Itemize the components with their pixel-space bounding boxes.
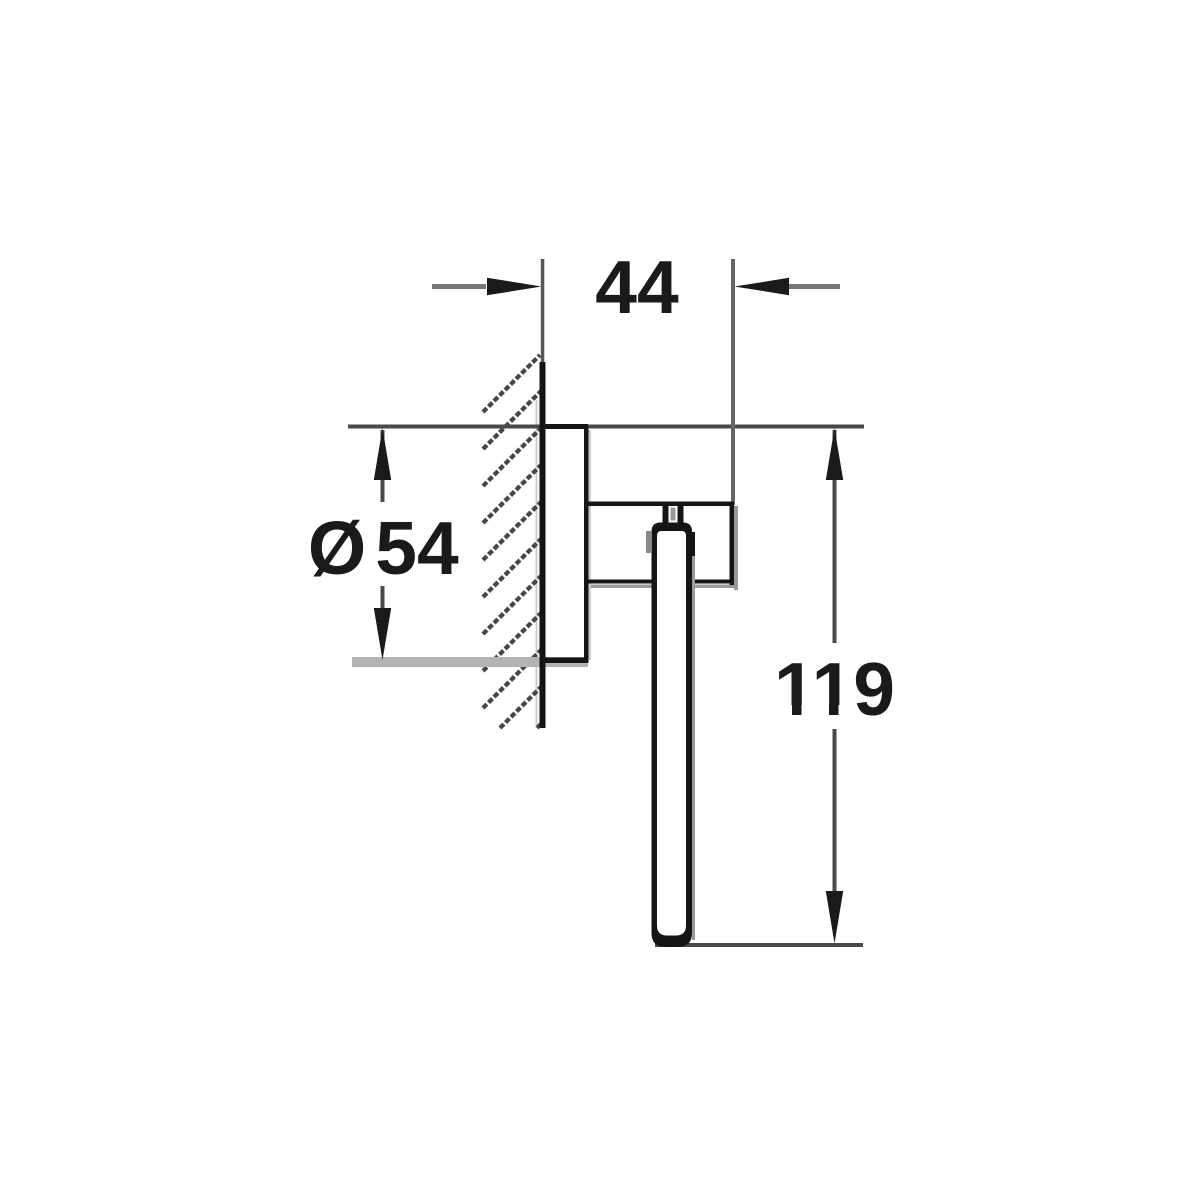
svg-text:44: 44 [595, 245, 679, 329]
svg-text:119: 119 [774, 647, 895, 731]
svg-text:Ø: Ø [308, 506, 366, 590]
svg-text:54: 54 [375, 506, 459, 590]
